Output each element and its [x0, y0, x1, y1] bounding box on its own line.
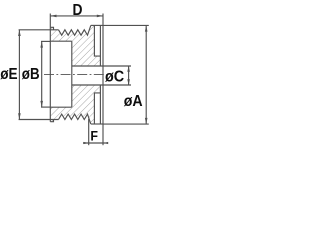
svg-text:øE: øE [0, 66, 17, 83]
pulley front face [49, 27, 51, 121]
svg-text:øC: øC [105, 68, 124, 85]
rolled fold slot upper [94, 25, 100, 56]
dim F dimension line [83, 142, 106, 144]
svg-text:øA: øA [124, 93, 143, 110]
svg-text:F: F [90, 128, 98, 144]
dim A lower extension line [103, 123, 149, 125]
fold inner edge lower [99, 85, 101, 124]
rear flange top edge [91, 24, 103, 26]
front flange lip top edge [50, 27, 53, 30]
dim A upper extension line [103, 24, 149, 26]
front flange lip bottom edge [50, 120, 53, 122]
dim A upper arrow [145, 25, 148, 31]
dim D left arrow [50, 15, 56, 18]
dim C lower arrow [127, 79, 130, 85]
dim B dimension line [41, 41, 43, 107]
axis centerline [44, 74, 107, 76]
dim A dimension line [145, 25, 147, 124]
dim B upper arrow [40, 41, 43, 47]
recess back face [71, 41, 73, 107]
dim D dimension line [50, 15, 103, 17]
dim B upper extension line [41, 40, 50, 42]
recess bore upper wall [50, 40, 72, 42]
pulley rear face [102, 14, 104, 125]
pulley upper half section hatch [50, 25, 100, 66]
dim E upper extension line [19, 29, 59, 31]
poly-V groove zigzag bottom [59, 114, 91, 124]
dim E dimension line [18, 30, 20, 120]
dim C dimension line [128, 66, 130, 85]
dim B lower extension line [41, 106, 50, 108]
dim E lower arrow [18, 113, 21, 119]
dim C upper arrow [127, 66, 130, 72]
svg-text:øB: øB [22, 66, 40, 83]
dim F left extension line [88, 119, 90, 146]
dim C upper extension line [103, 65, 131, 67]
center bore upper wall [72, 65, 103, 67]
dim F right extension line [102, 124, 104, 145]
svg-text:D: D [73, 2, 83, 19]
dim E lower extension line [19, 119, 59, 121]
dim D left extension line [49, 14, 51, 28]
dim B lower arrow [40, 101, 43, 107]
dim F left arrow [84, 142, 89, 144]
rear flange bottom edge [91, 123, 103, 125]
fold inner edge upper [99, 25, 101, 66]
dim E upper arrow [18, 30, 21, 36]
poly-V groove zigzag top [59, 25, 91, 35]
center bore lower wall [72, 84, 103, 86]
dim D right arrow [97, 15, 103, 18]
pulley lower half section hatch [50, 85, 100, 124]
recess bore lower wall [50, 106, 72, 108]
dim F right arrow [103, 142, 108, 144]
dim C lower extension line [103, 84, 131, 86]
dim A lower arrow [145, 118, 148, 124]
rolled fold slot lower [94, 93, 100, 124]
